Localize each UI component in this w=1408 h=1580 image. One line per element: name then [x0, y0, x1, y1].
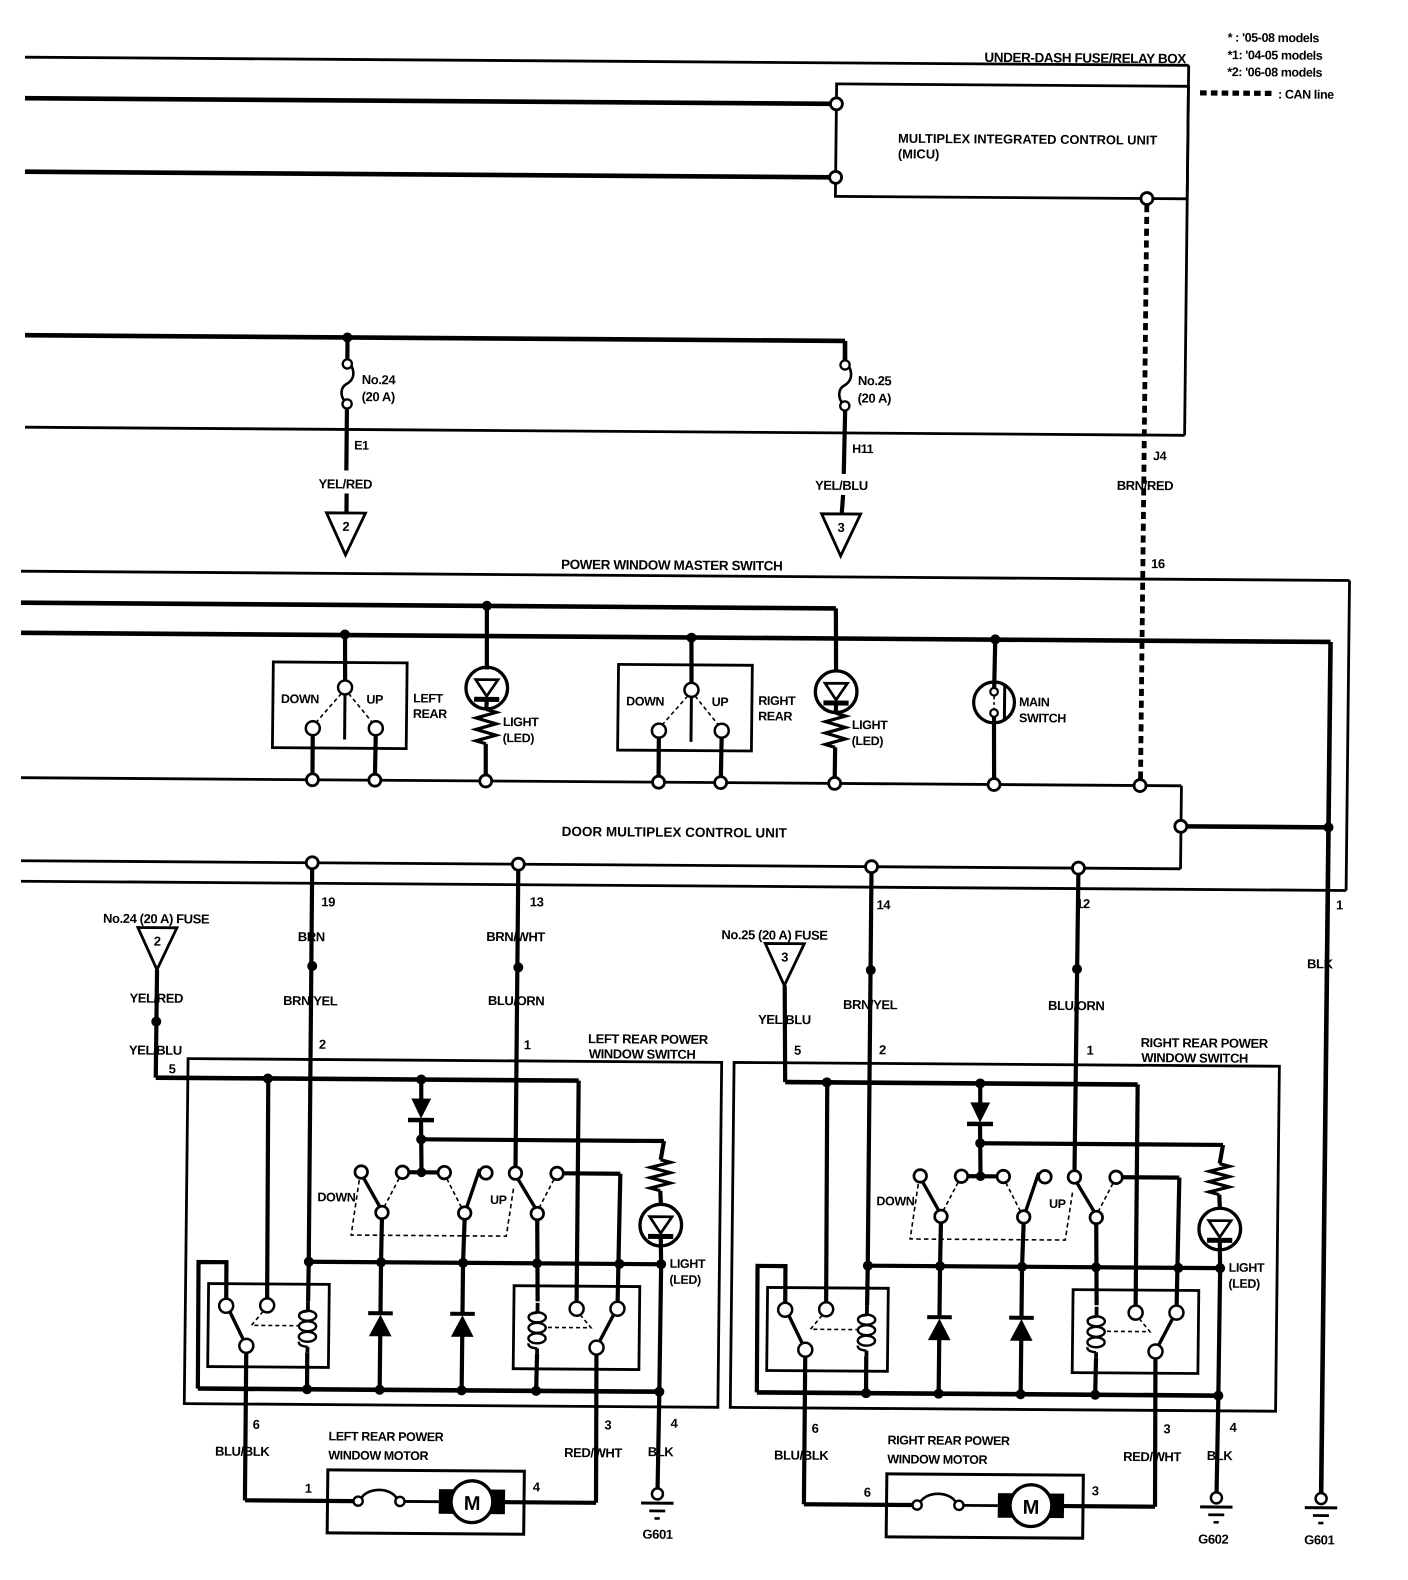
- junction diode feed-L: [416, 1074, 426, 1084]
- connector triangle 2 lower: [137, 928, 176, 970]
- breaker contact 2: [395, 1497, 404, 1506]
- motor circle: [451, 1481, 493, 1523]
- LED indicator-L: [658, 1191, 663, 1205]
- relay1 dashed link-R: [810, 1315, 857, 1329]
- svg-text:DOWN: DOWN: [317, 1190, 356, 1204]
- svg-text:BRN/RED: BRN/RED: [1117, 478, 1174, 493]
- svg-text:M: M: [464, 1493, 481, 1515]
- wire contact-A down-R: [938, 1223, 943, 1267]
- svg-text:6: 6: [253, 1417, 260, 1432]
- svg-text:No.24 (20 A) FUSE: No.24 (20 A) FUSE: [103, 911, 210, 927]
- relay2 contact b-L: [610, 1302, 624, 1316]
- relay1 blade-L: [230, 1312, 244, 1340]
- svg-text:No.24: No.24: [362, 372, 397, 387]
- wire: door mux to BLK: [1187, 824, 1329, 830]
- junction collector 394.9-L: [376, 1257, 386, 1267]
- wire: motor right lead: [1064, 1504, 1155, 1509]
- diode D2 (mid-left)-R: [937, 1266, 942, 1317]
- collector wire-L: [309, 1262, 661, 1264]
- door mux bottom pin 14: [865, 861, 877, 873]
- breaker contact 1: [912, 1500, 921, 1509]
- svg-text:BLU/ORN: BLU/ORN: [488, 993, 545, 1008]
- wire: BLU/ORN pin 12: [1075, 874, 1079, 1170]
- svg-text:LEFT REAR POWER: LEFT REAR POWER: [328, 1429, 443, 1444]
- junction left rear switch: [340, 629, 350, 639]
- wire pin 3 RED/WHT-R: [1154, 1358, 1157, 1506]
- wire: feed to MICU lower: [25, 172, 830, 178]
- relay1 contact a-L: [219, 1299, 233, 1313]
- wire pin 6 BLU/BLK-R: [804, 1357, 806, 1505]
- connector triangle 3: [821, 514, 860, 556]
- contact lower 478-L: [458, 1207, 471, 1220]
- master switch box top: [21, 571, 1350, 580]
- wire pin 3 RED/WHT-L: [595, 1355, 598, 1503]
- wire: BRN / BRN-YEL pin 19: [308, 869, 313, 1262]
- svg-text:BRN/YEL: BRN/YEL: [283, 993, 338, 1008]
- contact u2-R: [955, 1170, 968, 1183]
- dashed switch mechanism outline-R: [910, 1184, 1073, 1240]
- wire: YEL/RED - YEL/BLU into left box pin 5: [156, 970, 157, 1078]
- switch: right rear (master): [618, 664, 753, 751]
- junction ground bus 322.3-R: [861, 1388, 871, 1398]
- diode D1 (top)-R: [978, 1083, 983, 1103]
- svg-text:6: 6: [812, 1421, 819, 1436]
- wire pin 4 BLK-R: [1218, 1268, 1220, 1396]
- ground bus-R: [757, 1392, 1219, 1395]
- door mux box bottom: [21, 861, 1181, 869]
- svg-text:G601: G601: [642, 1527, 673, 1542]
- door mux bottom pin 19: [306, 857, 318, 869]
- junction collector 476.9-R: [1017, 1262, 1027, 1272]
- wire: BRN/WHT / BLU-ORN pin 13: [515, 870, 519, 1166]
- relay1 contact a-R: [778, 1303, 792, 1317]
- wire: YEL/BLU feed bus-R: [785, 1082, 1137, 1084]
- relay 1-L: [208, 1284, 330, 1368]
- svg-text:YEL/BLU: YEL/BLU: [758, 1012, 811, 1027]
- contact u4-L: [480, 1167, 493, 1180]
- svg-text:MAIN: MAIN: [1019, 695, 1050, 709]
- blade UP-L: [517, 1178, 536, 1208]
- relay1 coil-R: [865, 1305, 869, 1315]
- svg-text:WINDOW SWITCH: WINDOW SWITCH: [589, 1046, 696, 1062]
- dashed alt 1-R: [944, 1182, 958, 1210]
- main switch: [994, 639, 995, 687]
- wire: fuse No.24 to E1: [344, 408, 349, 470]
- svg-text:UP: UP: [1049, 1197, 1066, 1211]
- junction relay-1 feed-R: [822, 1077, 832, 1087]
- ground G601 right: [1316, 1493, 1327, 1504]
- svg-text:1: 1: [1086, 1043, 1093, 1058]
- fuse No.24 (20 A): [345, 337, 350, 359]
- relay2 contact common-R: [1148, 1344, 1162, 1358]
- relay2 contact b-R: [1169, 1306, 1183, 1320]
- breaker contact 2: [954, 1501, 963, 1510]
- svg-text:YEL/BLU: YEL/BLU: [815, 478, 868, 493]
- under-dash box bottom edge: [25, 427, 1185, 435]
- wire: to fuse No.25: [843, 341, 848, 361]
- svg-text:RED/WHT: RED/WHT: [1123, 1449, 1181, 1464]
- relay2 contact a-L: [570, 1302, 584, 1316]
- relay2 dashed link-R: [1105, 1318, 1150, 1331]
- ground G602: [1211, 1492, 1222, 1503]
- svg-text:BRN/YEL: BRN/YEL: [843, 997, 898, 1012]
- door mux bottom pin 13: [512, 858, 524, 870]
- contact u5-L: [509, 1167, 522, 1180]
- splice YEL/RED-YEL/BLU: [151, 1017, 161, 1027]
- svg-text:(MICU): (MICU): [898, 146, 940, 161]
- contact u6-L: [551, 1167, 564, 1180]
- wire: battery feed / box top: [25, 57, 1189, 65]
- svg-text:DOOR MULTIPLEX CONTROL UNIT: DOOR MULTIPLEX CONTROL UNIT: [562, 824, 788, 841]
- contact u2-L: [396, 1166, 409, 1179]
- svg-text:UP: UP: [490, 1193, 507, 1207]
- wire: YEL/BLU to connector 3: [842, 495, 843, 514]
- junction ground bus 551.4-L: [531, 1386, 541, 1396]
- LED indicator-R: [1217, 1195, 1222, 1209]
- MICU box: [835, 84, 1188, 199]
- door mux box top: [21, 778, 1181, 786]
- junction LED left rear: [482, 601, 492, 611]
- bus wire C in master switch: [21, 633, 1331, 642]
- master switch box right edge: [1346, 580, 1349, 890]
- switch contacts DOWN/UP-R: [961, 1174, 1003, 1178]
- svg-text:RIGHT: RIGHT: [758, 694, 796, 708]
- junction ground bus 322.3-L: [302, 1384, 312, 1394]
- contact lower 395.3-L: [376, 1206, 389, 1219]
- motor circle: [1010, 1485, 1052, 1527]
- LED left rear indicator: [486, 606, 487, 670]
- svg-text:WINDOW MOTOR: WINDOW MOTOR: [328, 1448, 428, 1463]
- switch contacts DOWN/UP-L: [402, 1170, 444, 1174]
- relay1 dashed link-L: [251, 1311, 298, 1325]
- wire: motor right lead: [505, 1500, 596, 1505]
- wire: diode to switch common-L: [419, 1139, 424, 1168]
- contact u4-R: [1039, 1170, 1052, 1183]
- svg-text:2: 2: [319, 1037, 326, 1052]
- contact lower 395.3-R: [935, 1210, 948, 1223]
- svg-text:J4: J4: [1153, 449, 1167, 463]
- blade UP-R: [1076, 1182, 1095, 1212]
- svg-text:2: 2: [342, 519, 349, 534]
- junction relay-1 feed-L: [263, 1073, 273, 1083]
- wire: feed to MICU upper: [25, 98, 830, 104]
- svg-text:*1: '04-05 models: *1: '04-05 models: [1227, 48, 1322, 63]
- svg-text:1: 1: [524, 1037, 531, 1052]
- svg-text:YEL/RED: YEL/RED: [318, 476, 372, 491]
- blade mid-R: [1025, 1173, 1038, 1212]
- wire: feed to relay-1 contact-R: [825, 1082, 829, 1302]
- door mux box right edge: [1179, 786, 1183, 869]
- left rear power window switch box: [184, 1059, 721, 1408]
- relay 2-L: [513, 1286, 640, 1370]
- splice BRN-BRN/YEL: [307, 961, 317, 971]
- svg-text:16: 16: [1151, 556, 1165, 571]
- svg-text:No.25: No.25: [858, 373, 892, 388]
- svg-text:LEFT REAR POWER: LEFT REAR POWER: [588, 1031, 709, 1047]
- dashed alt 3-R: [1099, 1183, 1113, 1211]
- wire to relay-2 coil side-R: [1177, 1178, 1180, 1306]
- svg-text:*2: '06-08 models: *2: '06-08 models: [1227, 65, 1322, 80]
- relay1 contact common-L: [239, 1339, 253, 1353]
- svg-text:G602: G602: [1198, 1532, 1229, 1547]
- junction ground bus 394.9-R: [934, 1389, 944, 1399]
- svg-text:LEFT: LEFT: [413, 691, 444, 705]
- svg-text:2: 2: [879, 1042, 886, 1057]
- junction diode feed-R: [975, 1078, 985, 1088]
- wire contact-C to relay-2 coil-R: [1095, 1224, 1097, 1306]
- wire pin 6 BLU/BLK-L: [245, 1353, 247, 1501]
- svg-text:(20 A): (20 A): [362, 389, 395, 404]
- junction ground bus 476.9-R: [1016, 1389, 1026, 1399]
- svg-text:POWER WINDOW MASTER SWITCH: POWER WINDOW MASTER SWITCH: [561, 557, 782, 574]
- door mux top pin LED right: [829, 777, 841, 789]
- dashed alt 3-L: [540, 1179, 554, 1207]
- svg-text:WINDOW MOTOR: WINDOW MOTOR: [887, 1452, 987, 1467]
- blade DOWN-L: [363, 1178, 381, 1208]
- svg-text:3: 3: [604, 1417, 611, 1432]
- splice pin14: [866, 965, 876, 975]
- relay1 contact-a riser to ground bus-R: [756, 1266, 785, 1393]
- contact u3-R: [997, 1170, 1010, 1183]
- collector wire-R: [868, 1266, 1220, 1268]
- relay 2-R: [1072, 1290, 1199, 1374]
- dashed alt 2-L: [447, 1179, 462, 1207]
- breaker contact 1: [353, 1496, 362, 1505]
- svg-text:(LED): (LED): [852, 734, 884, 748]
- MICU pin J4 bottom: [1141, 193, 1153, 205]
- relay1 blade-R: [789, 1316, 803, 1344]
- svg-text:6: 6: [864, 1485, 871, 1500]
- dashed alt 2-R: [1006, 1183, 1021, 1211]
- svg-text:14: 14: [876, 897, 891, 912]
- svg-text:* : '05-08 models: * : '05-08 models: [1228, 31, 1320, 46]
- svg-text:3: 3: [1092, 1483, 1099, 1498]
- wire: motor left lead: [245, 1498, 354, 1503]
- svg-text:REAR: REAR: [413, 707, 447, 721]
- splice BRN/WHT-BLU/ORN: [513, 962, 523, 972]
- svg-text:3: 3: [1163, 1421, 1170, 1436]
- svg-text:REAR: REAR: [758, 709, 792, 723]
- svg-text:UNDER-DASH FUSE/RELAY BOX: UNDER-DASH FUSE/RELAY BOX: [984, 50, 1186, 66]
- junction collector 322.7-R: [863, 1261, 873, 1271]
- relay1 contact-a riser to ground bus-L: [197, 1262, 226, 1389]
- svg-text:: CAN line: : CAN line: [1278, 87, 1334, 101]
- relay1 contact b-L: [260, 1298, 274, 1312]
- wire contact-C to relay-2 coil-L: [536, 1220, 538, 1302]
- door mux bottom pin 12: [1072, 862, 1084, 874]
- svg-text:5: 5: [794, 1043, 801, 1058]
- fuse No.25 (20 A): [840, 360, 849, 369]
- legend CAN dashed sample: [1200, 90, 1273, 96]
- junction collector 675-R: [1215, 1263, 1225, 1273]
- svg-text:LIGHT: LIGHT: [1229, 1261, 1265, 1275]
- svg-text:19: 19: [321, 894, 335, 909]
- svg-text:(20 A): (20 A): [858, 391, 891, 406]
- wire: BLK to ground G601: [1321, 642, 1330, 1493]
- svg-text:RED/WHT: RED/WHT: [564, 1445, 622, 1460]
- wire: motor left lead: [804, 1502, 913, 1507]
- breaker arc: [921, 1494, 956, 1502]
- wire: diode to switch common-R: [978, 1143, 983, 1172]
- junction collector 633.2-L: [614, 1259, 624, 1269]
- door mux top pin right-rear up: [715, 777, 727, 789]
- door mux top pin left-rear up: [369, 774, 381, 786]
- svg-text:No.25 (20 A) FUSE: No.25 (20 A) FUSE: [721, 927, 828, 943]
- contact lower 478-R: [1017, 1211, 1030, 1224]
- svg-text:E1: E1: [354, 439, 369, 453]
- svg-text:3: 3: [781, 950, 788, 965]
- svg-text:DOWN: DOWN: [281, 692, 320, 706]
- relay2 coil-L: [536, 1303, 540, 1313]
- dashed switch mechanism outline-L: [351, 1180, 514, 1236]
- svg-text:(LED): (LED): [1228, 1277, 1260, 1291]
- relay2 dashed link-L: [546, 1314, 591, 1327]
- resistor (LED series)-R: [1209, 1164, 1229, 1195]
- wire contact-6 right-L: [563, 1171, 620, 1176]
- relay1 contact common-R: [798, 1343, 812, 1357]
- junction main switch: [990, 634, 1000, 644]
- left rear power window motor: [327, 1470, 524, 1534]
- wire contact-B down-R: [1022, 1223, 1024, 1267]
- svg-text:MULTIPLEX INTEGRATED CONTROL U: MULTIPLEX INTEGRATED CONTROL UNIT: [898, 131, 1158, 148]
- junction collector 633.2-R: [1173, 1263, 1183, 1273]
- dashed alt 1-L: [385, 1178, 399, 1206]
- svg-text:BRN: BRN: [298, 929, 325, 944]
- contact u5-R: [1068, 1171, 1081, 1184]
- door mux top pin 16 CAN: [1134, 779, 1146, 791]
- relay2 contact common-L: [589, 1341, 603, 1355]
- svg-text:LIGHT: LIGHT: [670, 1257, 706, 1271]
- junction ground bus 476.9-L: [457, 1385, 467, 1395]
- svg-text:DOWN: DOWN: [626, 694, 665, 708]
- diode D3 (mid-right)-R: [1019, 1267, 1024, 1318]
- svg-text:3: 3: [837, 520, 844, 535]
- svg-text:BRN/WHT: BRN/WHT: [486, 929, 545, 944]
- junction BLK / door mux output: [1323, 822, 1333, 832]
- junction collector 675-L: [656, 1259, 666, 1269]
- door mux top pin LED left: [480, 775, 492, 787]
- svg-text:YEL/BLU: YEL/BLU: [129, 1042, 182, 1057]
- ground bus-L: [198, 1388, 660, 1391]
- junction diode out-R: [975, 1138, 985, 1148]
- switch: left rear (master): [272, 662, 407, 749]
- svg-text:WINDOW SWITCH: WINDOW SWITCH: [1141, 1050, 1248, 1066]
- connector triangle 3 lower: [765, 943, 804, 985]
- junction diode out-L: [416, 1134, 426, 1144]
- wire: YEL/BLU feed bus-L: [156, 1078, 579, 1081]
- svg-text:BLU/BLK: BLU/BLK: [215, 1444, 270, 1459]
- LED right rear indicator: [835, 608, 837, 672]
- relay 1-R: [767, 1287, 889, 1371]
- svg-text:2: 2: [154, 934, 161, 949]
- under-dash box right edge: [1185, 65, 1189, 435]
- junction collector 322.7-L: [304, 1257, 314, 1267]
- svg-text:RIGHT REAR POWER: RIGHT REAR POWER: [887, 1433, 1010, 1448]
- relay2 contact a-R: [1129, 1306, 1143, 1320]
- wire contact-6 right-R: [1122, 1175, 1179, 1180]
- wire: feed to relay-2 contact-L: [576, 1081, 579, 1302]
- relay2 blade-L: [599, 1315, 613, 1342]
- MICU pin lower: [830, 171, 842, 183]
- svg-text:BLU/BLK: BLU/BLK: [774, 1448, 829, 1463]
- svg-text:(LED): (LED): [669, 1273, 701, 1287]
- svg-text:BLK: BLK: [648, 1444, 675, 1459]
- svg-text:UP: UP: [366, 693, 383, 707]
- bus wire B in master switch: [21, 603, 836, 609]
- svg-text:BLK: BLK: [1307, 956, 1334, 971]
- wire: fuse feed bus: [25, 335, 845, 341]
- svg-text:RIGHT REAR POWER: RIGHT REAR POWER: [1141, 1035, 1269, 1051]
- door mux top pin right-rear down: [652, 776, 664, 788]
- relay2 coil-R: [1095, 1307, 1099, 1317]
- contact u1-R: [914, 1170, 927, 1183]
- wire: feed to relay-1 contact-L: [266, 1078, 270, 1298]
- door mux top pin main switch: [988, 778, 1000, 790]
- junction ground bus 674.6-R: [1213, 1391, 1223, 1401]
- door mux top pin left-rear down: [306, 774, 318, 786]
- svg-text:BLK: BLK: [1207, 1448, 1234, 1463]
- contact u6-R: [1110, 1171, 1123, 1184]
- wire pin 4 BLK-L: [659, 1264, 661, 1392]
- right rear power window motor: [886, 1474, 1083, 1538]
- svg-text:LIGHT: LIGHT: [503, 715, 539, 729]
- door mux right pin: [1175, 820, 1187, 832]
- wire: feed to relay-2 contact-R: [1135, 1085, 1138, 1306]
- relay1 contact b-R: [819, 1302, 833, 1316]
- svg-text:M: M: [1023, 1497, 1040, 1519]
- relay1 coil-L: [306, 1301, 310, 1311]
- svg-text:H11: H11: [852, 442, 874, 456]
- master switch box bottom: [21, 881, 1346, 890]
- wire: CAN line J4 (dashed): [1141, 205, 1147, 779]
- wire: fuse No.25 to H11: [844, 410, 845, 474]
- junction collector 476.9-L: [458, 1258, 468, 1268]
- wire contact-B down-L: [463, 1219, 465, 1263]
- splice pin12: [1072, 964, 1082, 974]
- svg-text:DOWN: DOWN: [876, 1194, 915, 1208]
- junction collector 394.9-R: [935, 1261, 945, 1271]
- wire: diode out to LED resistor-R: [980, 1143, 1223, 1145]
- breaker arc: [362, 1490, 397, 1498]
- junction collector 550.9-R: [1091, 1262, 1101, 1272]
- blade DOWN-R: [922, 1181, 940, 1211]
- svg-text:SWITCH: SWITCH: [1019, 711, 1066, 725]
- junction right rear switch: [686, 633, 696, 643]
- wire to relay-2 coil side-L: [618, 1174, 621, 1302]
- wire: diode out to LED resistor-L: [421, 1139, 664, 1141]
- svg-text:BLU/ORN: BLU/ORN: [1048, 998, 1105, 1013]
- wire contact-A down-L: [379, 1219, 384, 1263]
- relay2 blade-R: [1158, 1319, 1172, 1346]
- wire: BRN/YEL pin 14: [867, 873, 872, 1266]
- wire: YEL/BLU into right box pin 5: [784, 986, 787, 1083]
- svg-text:1: 1: [1336, 897, 1343, 912]
- contact lower 550.6-R: [1090, 1211, 1103, 1224]
- diode D2 (mid-left)-L: [378, 1262, 383, 1313]
- junction ground bus 674.6-L: [654, 1387, 664, 1397]
- svg-text:(LED): (LED): [503, 731, 535, 745]
- svg-text:1: 1: [305, 1481, 312, 1496]
- resistor (LED series)-L: [650, 1160, 670, 1191]
- right rear power window switch box: [730, 1062, 1279, 1411]
- ground G601 left: [652, 1488, 663, 1499]
- diode D3 (mid-right)-L: [460, 1263, 465, 1314]
- junction collector 550.9-L: [532, 1258, 542, 1268]
- svg-text:5: 5: [169, 1061, 176, 1076]
- diode D1 (top)-L: [419, 1080, 424, 1100]
- contact u1-L: [355, 1166, 368, 1179]
- junction fuse No.24 tap: [342, 332, 352, 342]
